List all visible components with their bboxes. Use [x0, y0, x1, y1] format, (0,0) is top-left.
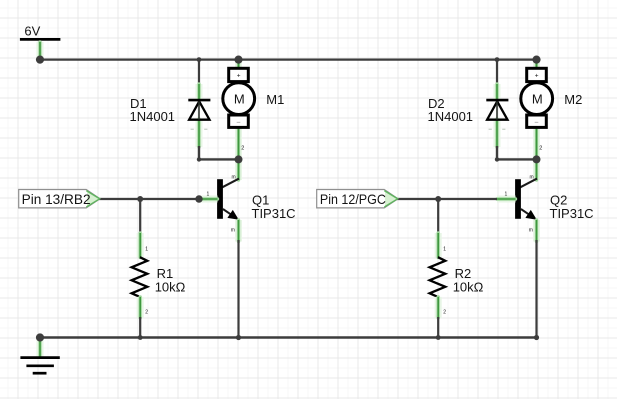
svg-text:TIP31C: TIP31C — [252, 206, 296, 221]
svg-text:TIP31C: TIP31C — [550, 206, 594, 221]
svg-text:6V: 6V — [24, 23, 40, 38]
svg-text:Pin 12/PGC: Pin 12/PGC — [320, 191, 386, 207]
svg-text:1N4001: 1N4001 — [130, 109, 176, 124]
svg-text:10kΩ: 10kΩ — [453, 280, 484, 295]
svg-text:M: M — [234, 92, 245, 107]
svg-text:10kΩ: 10kΩ — [155, 280, 186, 295]
svg-text:M2: M2 — [564, 92, 582, 107]
svg-text:1N4001: 1N4001 — [428, 109, 474, 124]
svg-text:M1: M1 — [266, 92, 284, 107]
svg-text:Pin 13/RB2: Pin 13/RB2 — [22, 191, 91, 207]
svg-text:M: M — [532, 92, 543, 107]
